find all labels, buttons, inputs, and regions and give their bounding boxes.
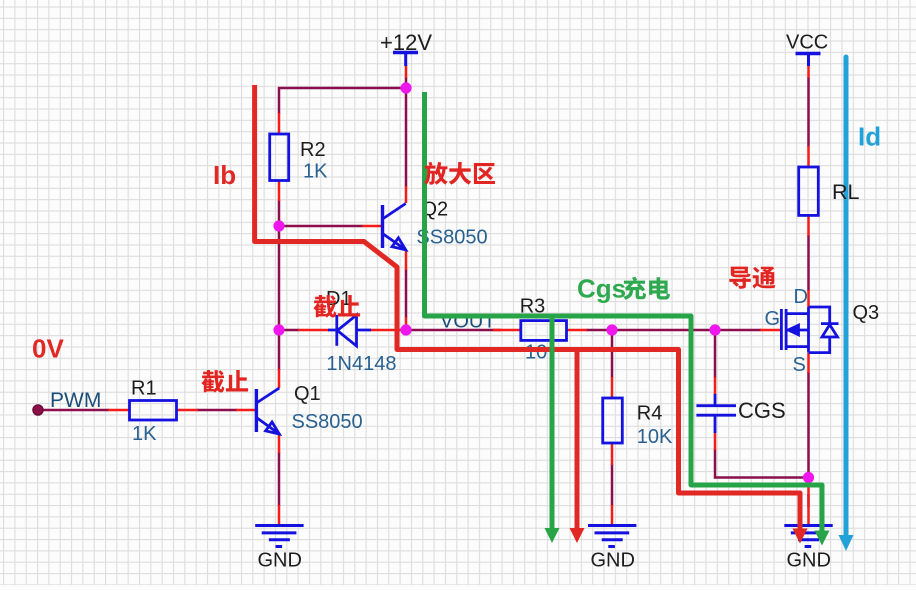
svg-text:VCC: VCC (786, 32, 828, 54)
power symbol +12V (393, 53, 418, 67)
annotation red arrowhead at bottom right GND (793, 529, 808, 544)
svg-text:Q1: Q1 (294, 383, 321, 405)
wire Q1 emitter to GND (278, 452, 281, 506)
wire Q3 source to node E (807, 372, 810, 478)
ground GND at bottom right (784, 526, 832, 547)
svg-text:RL: RL (832, 180, 860, 204)
svg-text:+12V: +12V (380, 30, 432, 55)
pin stub R4 GND (611, 505, 614, 525)
pin stub VCC (807, 65, 810, 78)
svg-text:GND: GND (591, 550, 635, 572)
pin stub R1 left (108, 409, 129, 412)
svg-text:Ib: Ib (213, 160, 236, 190)
wire node C to R4 top (611, 330, 614, 378)
annotation text amplification region (fang da qu) (424, 162, 495, 185)
pin stub Q3 drain (807, 290, 810, 307)
annotation cyan arrowhead (839, 535, 854, 551)
transistor Q2 (NPN SS8050) (383, 204, 406, 250)
resistor R1 body (130, 401, 177, 421)
annotation text cutoff (jie zhi) near Q1 (201, 370, 248, 393)
junction node VOUT (400, 324, 411, 335)
wire VCC to RL top (807, 77, 810, 147)
junction node E (source/CGS/GND) (803, 472, 814, 483)
svg-text:0V: 0V (32, 334, 64, 364)
svg-text:CGS: CGS (738, 398, 786, 423)
annotation cyan Id current line (844, 57, 849, 535)
wire node A to R2 bottom (278, 200, 281, 226)
wire R3 right to node C (586, 329, 612, 332)
pin stub CGS top (714, 377, 717, 395)
wire node A to Q2 base (279, 225, 363, 228)
svg-text:SS8050: SS8050 (416, 227, 487, 249)
pin stub R2 top (278, 113, 281, 134)
annotation red arrowhead of branch (570, 528, 585, 543)
svg-text:G: G (765, 308, 781, 330)
resistor R4 body (603, 398, 623, 443)
junction node +12V rail (400, 82, 411, 93)
svg-text:D: D (794, 286, 808, 308)
svg-text:SS8050: SS8050 (292, 411, 363, 433)
junction node C (R3/R4) (606, 324, 617, 335)
pin stub R4 bottom (611, 443, 614, 465)
wire node E to GND (807, 494, 810, 507)
svg-text:GND: GND (787, 550, 831, 572)
annotation green path Cgs charge (425, 92, 823, 532)
junction node B (D1 left) (273, 324, 284, 335)
pin stub CGS bottom (714, 432, 717, 450)
transistor Q1 (NPN SS8050) (256, 388, 279, 434)
svg-text:Id: Id (858, 122, 881, 152)
pin stub Q1 base (236, 409, 256, 412)
annotation red current path Ib (Q2 path to R3 branch) (255, 85, 800, 530)
pin stub R3 left (493, 329, 521, 332)
pin stub Q1 GND (278, 505, 281, 525)
wire R2 top to +12V rail (279, 88, 406, 114)
svg-text:S: S (793, 354, 806, 376)
svg-text:10K: 10K (637, 426, 673, 448)
ground GND under R4 (588, 526, 636, 547)
wire node C to node D (612, 329, 715, 332)
annotation green arrowhead at bottom right GND (815, 531, 830, 546)
wire R4 bottom to GND (611, 464, 614, 506)
svg-text:Q3: Q3 (853, 302, 880, 324)
pin stub R2 bottom (278, 181, 281, 201)
svg-text:R1: R1 (131, 378, 157, 400)
annotation text cutoff (jie zhi) near D1 (313, 295, 360, 318)
annotation green branch down through R3 (550, 316, 555, 529)
wire RL bottom to Q3 drain (807, 235, 810, 291)
wire node D to CGS top (714, 330, 717, 378)
pin stub R1 right (177, 409, 198, 412)
junction node A (R2/Q1/Q2 base) (273, 220, 284, 231)
wire node B to D1 anode-side (281, 329, 299, 332)
wire R1 right to Q1 base (197, 409, 237, 412)
pin stub R3 right (566, 329, 587, 332)
pin stub Q2 emitter (405, 250, 408, 270)
annotation red branch down through R3 node (575, 350, 580, 529)
pin stub Q3 gate (760, 329, 781, 332)
pin stub Q2 collector (405, 186, 408, 203)
transistor Q3 (NMOS) (781, 307, 838, 353)
capacitor CGS (696, 394, 736, 433)
junction node D (gate/CGS) (709, 324, 720, 335)
svg-text:R2: R2 (300, 139, 326, 161)
diode D1 (328, 315, 371, 346)
svg-text:1K: 1K (132, 423, 157, 445)
wire Q1 collector to node VOUT-left column (278, 226, 281, 370)
annotation green arrowhead of branch (545, 528, 560, 543)
pin stub D1 left (298, 329, 329, 332)
resistor RL body (799, 167, 819, 215)
pin stub D1 right (370, 329, 403, 332)
pin stub Q1 emitter (278, 434, 281, 453)
svg-text:PWM: PWM (50, 389, 101, 412)
svg-text:1N4148: 1N4148 (326, 353, 396, 375)
resistor R2 body (270, 134, 289, 181)
svg-text:1K: 1K (303, 161, 328, 183)
svg-text:10: 10 (525, 342, 547, 364)
wire node D to Q3 gate (715, 329, 761, 332)
svg-text:R4: R4 (637, 403, 663, 425)
port PWM input (33, 405, 43, 415)
wire CGS bottom to node E (715, 449, 809, 478)
svg-text:Cgs: Cgs (577, 274, 626, 304)
pin stub RL bottom (807, 215, 810, 236)
wire node VOUT to R3 left (406, 329, 501, 332)
wire Q2 emitter to node VOUT (405, 269, 408, 318)
annotation text conducting (dao tong) (729, 267, 775, 289)
pin stub +12V (405, 65, 408, 78)
pin stub Q3 source node to GND (807, 478, 810, 525)
ground GND under Q1 (255, 526, 303, 547)
pin stub Q2 base (362, 225, 382, 228)
pin stub RL top (807, 146, 810, 167)
pin stub Q3 source (807, 353, 810, 373)
svg-text:GND: GND (258, 550, 302, 572)
resistor R3 body (521, 321, 567, 341)
wire PWM port to R1 left (42, 409, 109, 412)
pin stub R4 top (611, 377, 614, 398)
pin stub Q1 collector (278, 369, 281, 388)
wire +12V to Q2 collector (405, 77, 408, 187)
pin stub Q2 emitter to VOUT node (405, 317, 408, 330)
power symbol VCC (796, 54, 821, 67)
